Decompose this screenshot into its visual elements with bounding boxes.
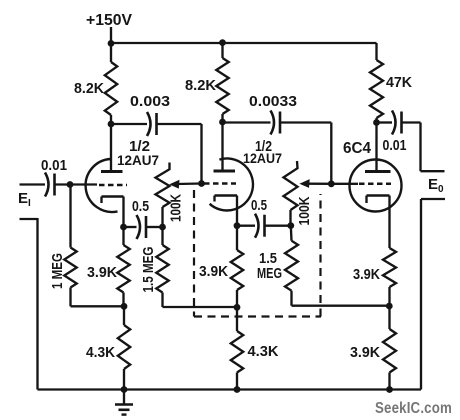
wire C5 to P2 node xyxy=(266,225,292,227)
svg-text:0.01: 0.01 xyxy=(41,157,67,174)
svg-text:MEG: MEG xyxy=(257,265,282,282)
node P1 bottom junction xyxy=(159,224,166,231)
resistor R9 1.5MEG xyxy=(285,241,298,291)
node R11 R12 junction xyxy=(386,303,393,310)
resistor R5 3.9K xyxy=(117,245,129,293)
tube V1 plate lead xyxy=(110,124,112,171)
svg-text:47K: 47K xyxy=(386,74,412,91)
arrow P2 wiper xyxy=(299,179,309,188)
wire V3 plate to C6 xyxy=(377,121,393,123)
svg-text:SeekIC.com: SeekIC.com xyxy=(375,400,452,417)
resistor R10 4.3K lead xyxy=(236,307,238,331)
wire R3 bottom lead xyxy=(375,118,377,123)
wire R1 bottom lead xyxy=(110,115,112,124)
tube V2 grid dashes xyxy=(204,182,236,185)
dashed feedback box left edge xyxy=(193,190,195,317)
tube V3 envelope xyxy=(350,160,402,212)
resistor R6 1.5MEG lead xyxy=(161,227,163,245)
capacitor C1 0.01 xyxy=(45,173,49,197)
resistor R1 8.2K xyxy=(105,62,117,115)
wire bus right corner xyxy=(375,43,377,60)
svg-text:8.2K: 8.2K xyxy=(74,80,104,97)
wire output bottom terminal xyxy=(421,198,445,200)
wire C2 to corner xyxy=(158,123,202,125)
svg-text:100K: 100K xyxy=(297,196,313,225)
tube V3 plate lead xyxy=(375,123,377,171)
wire P2 bottom lead xyxy=(289,210,291,226)
node R5 R7 junction xyxy=(121,303,128,310)
wire R7 bottom lead xyxy=(123,369,125,390)
svg-text:1 MEG: 1 MEG xyxy=(50,253,66,289)
svg-text:8.2K: 8.2K xyxy=(185,77,216,94)
resistor R12 3.9K lead xyxy=(388,306,390,329)
tube V2 plate bar xyxy=(214,170,236,173)
svg-text:3.9K: 3.9K xyxy=(353,266,380,283)
wire C4 to P1 node xyxy=(147,226,163,228)
node V1 plate junction xyxy=(108,121,115,128)
wire output return xyxy=(420,199,422,390)
wire top B+ bus xyxy=(111,42,377,44)
svg-text:0.01: 0.01 xyxy=(383,137,407,154)
svg-text:3.9K: 3.9K xyxy=(350,344,380,361)
resistor R2 8.2K xyxy=(216,58,228,114)
node P2 bottom junction xyxy=(287,222,294,229)
node V1 cathode junction xyxy=(120,224,127,231)
wire corner down to V2 grid node xyxy=(200,124,202,184)
tube V1 envelope xyxy=(86,159,118,212)
svg-text:0.0033: 0.0033 xyxy=(249,93,297,110)
wire C1 to grid node xyxy=(56,183,98,185)
wire corner down to V3 grid node xyxy=(330,123,332,184)
resistor R10 4.3K xyxy=(231,331,243,373)
svg-text:12AU7: 12AU7 xyxy=(243,150,282,166)
tube V2 envelope xyxy=(210,158,253,210)
resistor R2 8.2K lead top xyxy=(221,43,223,58)
tube V2 plate lead xyxy=(221,122,223,170)
resistor R7 4.3K xyxy=(118,325,130,369)
node V2 cathode junction xyxy=(234,222,241,229)
node V2 plate junction xyxy=(219,119,226,126)
arrow P1 wiper xyxy=(169,180,179,189)
resistor R7 4.3K lead xyxy=(123,306,125,325)
svg-text:1.5 MEG: 1.5 MEG xyxy=(141,247,157,293)
capacitor C4 0.5 xyxy=(137,215,141,239)
svg-text:3.9K: 3.9K xyxy=(199,263,228,280)
svg-text:4.3K: 4.3K xyxy=(86,344,115,361)
tube V2 cathode xyxy=(215,194,238,197)
dashed feedback box bottom edge xyxy=(194,315,321,317)
resistor R8 3.9K xyxy=(231,250,243,290)
tube V1 cathode xyxy=(102,195,124,198)
svg-text:0.5: 0.5 xyxy=(251,197,267,214)
wire R2 bottom lead xyxy=(221,114,223,122)
svg-text:+150V: +150V xyxy=(86,12,133,29)
wire R9 bottom to R11 node xyxy=(290,291,292,306)
wire R12 bottom lead xyxy=(388,373,390,390)
wire output top corner xyxy=(419,123,421,172)
wire C6 to corner xyxy=(403,121,421,123)
resistor R12 3.9K xyxy=(383,329,396,373)
tube V3 cathode xyxy=(367,194,390,197)
wire +150V lead xyxy=(110,27,112,44)
wire bottom ground bus xyxy=(38,388,422,390)
resistor R1 8.2K lead top xyxy=(110,43,112,62)
node R8 R10 junction xyxy=(234,304,241,311)
wire P1 wiper arm xyxy=(177,182,202,185)
tube V3 plate bar xyxy=(365,170,391,173)
node ground junction xyxy=(121,386,128,393)
resistor R8 3.9K lead xyxy=(236,226,238,250)
resistor R4 1MEG xyxy=(64,248,76,288)
svg-text:12AU7: 12AU7 xyxy=(117,152,159,168)
resistor R3 47K xyxy=(370,60,383,118)
tube V3 grid dashes xyxy=(359,183,391,186)
node V3 grid junction xyxy=(328,180,335,187)
resistor R4 1MEG lead xyxy=(69,185,71,248)
wire R6 bottom to V2 cathode node xyxy=(161,293,163,308)
wire input lead xyxy=(20,183,46,185)
wire input return xyxy=(20,218,38,220)
wire cathode to C5 xyxy=(237,225,255,227)
node V3 plate junction xyxy=(373,119,380,126)
node R10 ground junction xyxy=(234,386,241,393)
node R2 top junction xyxy=(219,39,226,46)
node R12 ground junction xyxy=(386,386,393,393)
ground symbol xyxy=(123,390,125,405)
svg-text:4.3K: 4.3K xyxy=(248,343,279,360)
resistor R9 1.5MEG lead xyxy=(290,226,293,241)
svg-text:100K: 100K xyxy=(169,194,185,222)
wire R11 bottom lead xyxy=(388,287,390,306)
wire P1 bottom lead xyxy=(161,207,163,227)
wire V3 grid wire xyxy=(331,183,358,185)
capacitor C2 0.003 xyxy=(147,112,151,136)
capacitor C5 0.5 xyxy=(255,214,259,238)
svg-text:6C4: 6C4 xyxy=(343,140,371,157)
resistor R11 3.9K xyxy=(383,248,396,287)
wire R10 bottom lead xyxy=(236,373,238,390)
potentiometer P2 100K xyxy=(284,161,298,210)
wire C3 to corner xyxy=(281,121,331,123)
wire R4 bottom corner xyxy=(69,288,71,307)
node V1 grid junction xyxy=(67,181,74,188)
capacitor C6 0.01 xyxy=(392,111,396,135)
svg-text:0.5: 0.5 xyxy=(132,198,149,215)
svg-text:3.9K: 3.9K xyxy=(87,264,117,281)
wire V1 plate to C2 xyxy=(111,123,147,125)
resistor R5 3.9K lead xyxy=(122,227,124,245)
wire R5 bottom lead xyxy=(122,293,124,307)
node bus left junction xyxy=(108,40,115,47)
capacitor C3 0.0033 xyxy=(271,111,275,135)
resistor R6 1.5MEG xyxy=(156,245,168,293)
wire cathode to C4 xyxy=(124,226,137,228)
svg-text:0.003: 0.003 xyxy=(130,93,170,110)
wire R8 bottom lead xyxy=(236,290,238,307)
dashed feedback box right edge xyxy=(319,194,321,317)
potentiometer P1 100K xyxy=(156,163,170,208)
wire V1 grid dashes xyxy=(99,184,127,187)
tube V1 plate bar xyxy=(101,170,123,173)
wire P2 wiper arm xyxy=(307,183,331,185)
wire V2 plate to C3 xyxy=(223,121,271,123)
node V2 grid junction xyxy=(198,180,205,187)
